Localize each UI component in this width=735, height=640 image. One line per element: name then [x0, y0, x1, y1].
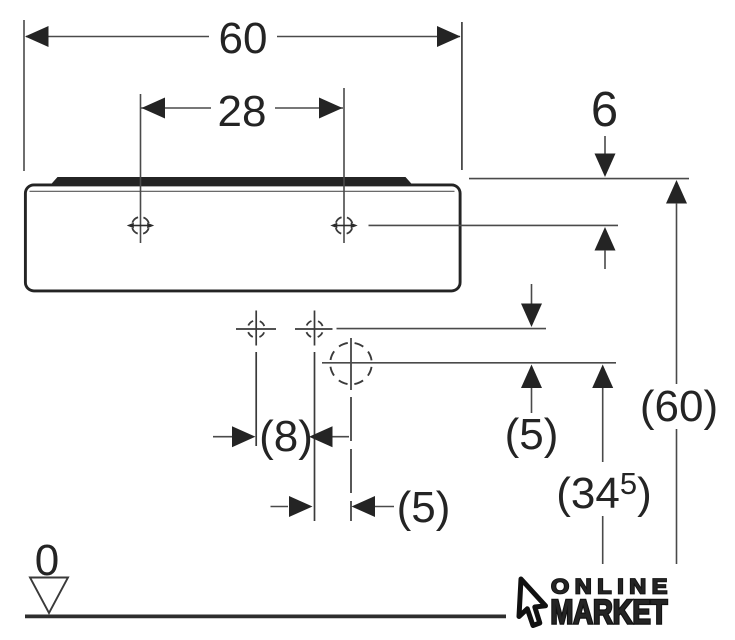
extension line: 60 left: [23, 20, 25, 171]
svg-text:(5): (5): [397, 483, 451, 532]
faucet hole left: width arrow: [133, 225, 148, 227]
extension line: 28 left (hole centerline): [140, 94, 142, 243]
svg-text:60: 60: [219, 14, 268, 63]
siphon hole: vertical centerline: [350, 338, 352, 390]
logo cursor icon: [519, 579, 546, 626]
washbasin inner rim line: [30, 190, 455, 192]
dimension (60): upper line: [676, 203, 678, 384]
dimension (8): left arrow: [213, 436, 233, 438]
dimension (60): top arrowhead: [666, 180, 687, 204]
dimension 60: left arrowhead: [25, 26, 49, 47]
faucet hole left: dashed circle: [132, 217, 149, 234]
dimension (5) upper: bottom arrow: [521, 365, 542, 389]
svg-text:(60): (60): [640, 382, 718, 431]
hole axis line extended right: [369, 224, 619, 226]
mounting stud right: vertical centerline: [314, 311, 316, 346]
extension line: 60 right: [461, 22, 463, 170]
basin top reference line (right): [469, 178, 689, 180]
floor line: [25, 615, 506, 619]
dimension (34.5): lower line: [602, 516, 604, 564]
dimension 6: upper arrow: [604, 136, 606, 156]
dimension 28: line: [141, 107, 343, 109]
svg-text:(8): (8): [259, 412, 313, 461]
svg-text:(5): (5): [505, 410, 559, 459]
dimension 28: label: [211, 87, 275, 136]
faucet hole right: width arrow: [337, 225, 352, 227]
dimension 60: label: [209, 14, 277, 63]
dimension (8): right arrow: [309, 426, 333, 447]
mounting stud left: horizontal centerline: [236, 328, 276, 330]
stud axis line extended right: [337, 328, 547, 330]
siphon hole: dashed centerline below: [350, 397, 352, 521]
dimension (34.5): label: [556, 462, 653, 518]
svg-text:6: 6: [591, 83, 618, 137]
dimension 6: lower arrow: [595, 227, 616, 251]
svg-text:28: 28: [218, 87, 267, 136]
siphon hole: dashed circle: [330, 343, 372, 385]
dimension (60): label: [640, 382, 720, 431]
dimension 60: right arrowhead: [437, 26, 461, 47]
svg-text:(345): (345): [556, 466, 652, 518]
dimension 28: left arrowhead: [142, 98, 166, 119]
faucet hole right: dashed circle: [335, 217, 352, 234]
washbasin top edge band: [52, 177, 412, 184]
washbasin outline: [25, 185, 460, 291]
dimension (5) upper: top arrow: [531, 284, 533, 306]
dimension (60): lower line: [676, 429, 678, 564]
dimension (34.5): upper line: [602, 388, 604, 462]
dimension (5) lower: left arrow: [271, 506, 289, 508]
mounting stud right: dashed circle: [306, 320, 323, 337]
dimension (34.5): arrowhead: [592, 365, 613, 389]
mounting stud left: vertical centerline: [255, 311, 257, 346]
dimension 28: right arrowhead: [319, 98, 343, 119]
mounting stud left: dashed circle: [248, 320, 265, 337]
dimension (5) lower: right arrow: [352, 496, 376, 517]
dimension 60: line: [26, 36, 460, 38]
extension line: 28 right (hole centerline): [343, 88, 345, 243]
datum triangle: [30, 578, 68, 614]
mounting stud right: horizontal centerline: [295, 328, 333, 330]
siphon axis line: [322, 362, 616, 364]
svg-text:MARKET: MARKET: [551, 594, 668, 632]
